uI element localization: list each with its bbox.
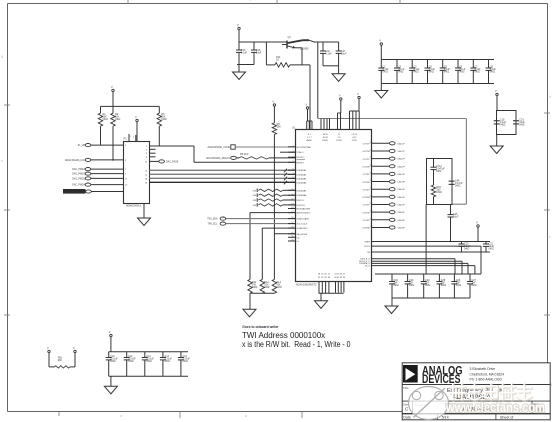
svg-text:0402: 0402 (165, 360, 171, 363)
svg-text:0402: 0402 (146, 360, 152, 363)
junction R2 on CLK row (112, 159, 114, 161)
svg-text:ADAU/SIGMA_MCLKO: ADAU/SIGMA_MCLKO (206, 157, 230, 160)
resistor R13 pulldown (272, 279, 282, 293)
svg-text:DAC6P: DAC6P (398, 226, 406, 229)
frame zone tick marks left border (1, 55, 10, 315)
svg-text:0402: 0402 (413, 70, 419, 73)
U2 left pin stubs and labels (288, 145, 312, 243)
svg-text:0402: 0402 (436, 170, 442, 173)
svg-text:0402: 0402 (429, 70, 435, 73)
power symbol connector VDD (135, 115, 138, 122)
watermark url text (445, 400, 545, 415)
svg-text:12: 12 (291, 199, 293, 201)
svg-text:2N3906: 2N3906 (300, 48, 309, 51)
wire bottom bank stem (110, 337, 112, 352)
svg-text:600: 600 (58, 359, 63, 362)
svg-text:OUT4M: OUT4M (362, 197, 370, 199)
resistor R15 filter (431, 185, 442, 204)
svg-text:0402: 0402 (455, 184, 461, 187)
wire U2 pin right corner down (372, 246, 482, 274)
svg-text:V: V (495, 89, 497, 93)
ground under P1 (138, 218, 151, 226)
svg-text:R5 49.9: R5 49.9 (240, 153, 249, 156)
ground under pulldown trio (243, 293, 256, 317)
svg-text:SDA/CDATA: SDA/CDATA (297, 218, 310, 221)
svg-text:VREF: VREF (364, 241, 370, 243)
capacitor C30 bulk (106, 352, 119, 377)
svg-text:10uF: 10uF (256, 51, 262, 54)
power symbol PLL supply (495, 89, 498, 96)
svg-text:ADAU/SIGMA_CLK: ADAU/SIGMA_CLK (65, 159, 86, 162)
resistor R11 pulldown (248, 279, 258, 293)
terminal DAC_PWD3 with wire to P1 (72, 177, 123, 181)
wire AVDD stem (238, 30, 240, 42)
resistor R7 series sdata dni stub (253, 189, 295, 193)
svg-text:V: V (357, 92, 359, 96)
svg-text:DNI: DNI (253, 205, 257, 207)
terminal DAC_PWD4 with wire to P1 (72, 183, 123, 187)
wire P1 SDATA4 black (150, 181, 296, 183)
svg-text:DAC_PWD4: DAC_PWD4 (72, 184, 85, 187)
svg-text:0402: 0402 (383, 70, 389, 73)
wire ADDR pullup bus down (273, 135, 275, 280)
power symbol FB1 left (47, 346, 50, 353)
svg-text:ADAU1962ABSTZ: ADAU1962ABSTZ (296, 284, 317, 287)
wire top rail node A (239, 42, 287, 45)
power symbol IOVDD pullups (111, 85, 114, 92)
capacitor C32 bulk (142, 352, 155, 377)
svg-text:1K: 1K (276, 58, 279, 61)
capacitor C13 (236, 42, 248, 65)
connector P1 bottom pin stub (143, 203, 145, 218)
wire PLL stem (496, 96, 498, 111)
capacitor C1 bypass (378, 60, 389, 84)
resistor R1 pullup (98, 106, 108, 145)
svg-text:0402: 0402 (519, 123, 525, 126)
svg-text:XTALO: XTALO (297, 151, 304, 154)
svg-text:MCLKO: MCLKO (297, 157, 305, 159)
wire top rail to C16 loop (314, 41, 339, 43)
svg-text:0402: 0402 (276, 286, 282, 289)
wire PVDD run to filter loop (318, 119, 467, 205)
svg-text:DAC5P: DAC5P (398, 211, 406, 214)
wire bottom bank bottom rail (109, 375, 188, 377)
wire U2 ground rail (319, 292, 344, 294)
transistor Q1 (282, 36, 309, 51)
svg-text:PL_UP: PL_UP (78, 145, 86, 147)
wire CLKIN to U2 (235, 146, 295, 148)
svg-text:0402: 0402 (398, 70, 404, 73)
svg-text:IOVD: IOVD (352, 140, 358, 142)
svg-text:MCLKIN/XTALI: MCLKIN/XTALI (297, 146, 312, 149)
svg-text:V: V (135, 115, 137, 119)
frame zone tick marks top border (128, 0, 400, 4)
pin labels P1 left column (125, 145, 128, 187)
power symbol U2 PVDD pin (339, 94, 342, 101)
resistor R6 pullup (272, 107, 281, 135)
wire C16 C17 loop (323, 42, 339, 66)
capacitor C18 (494, 119, 507, 127)
svg-text:5: 5 (292, 161, 293, 163)
frame zone tick marks bottom border (59, 411, 302, 418)
Analog Devices logo mark (403, 365, 418, 383)
wire U2 top pin group AVDD (307, 110, 312, 130)
power symbol U2 IOVDD pins (357, 92, 360, 99)
svg-text:0402: 0402 (471, 284, 477, 287)
svg-text:PVDD: PVDD (336, 140, 342, 142)
resistor R8 series sdata dni stub (253, 193, 295, 197)
wire pullup stem and rail (101, 92, 160, 106)
ground under bottom bank (104, 376, 117, 394)
svg-text:DAC2P: DAC2P (398, 165, 406, 168)
power symbol U2 AVDD pins (306, 103, 309, 110)
svg-text:DAC5P: DAC5P (398, 204, 406, 207)
svg-text:16: 16 (291, 217, 293, 219)
capacitor C4 bypass (425, 60, 436, 84)
svg-text:6: 6 (292, 169, 293, 171)
svg-text:ADAU/SIGMA_CLKIN: ADAU/SIGMA_CLKIN (208, 146, 231, 149)
svg-text:P1: P1 (124, 137, 128, 141)
capacitor C5 bypass (440, 60, 451, 84)
svg-text:30: 30 (370, 142, 372, 144)
title block date row (403, 415, 513, 419)
svg-text:0402: 0402 (437, 191, 443, 194)
svg-text:0402: 0402 (459, 70, 465, 73)
svg-text:DSDATA2: DSDATA2 (297, 173, 308, 176)
svg-text:29: 29 (370, 149, 372, 151)
wire U2 top pin group IOVDD (350, 99, 360, 130)
svg-text:0402: 0402 (183, 360, 189, 363)
svg-text:Goes to onboard writer: Goes to onboard writer (242, 325, 279, 329)
wire U2 bottom pin cluster DGND (318, 274, 331, 294)
svg-text:26: 26 (370, 172, 372, 174)
svg-text:DAC4P: DAC4P (398, 196, 406, 199)
svg-text:18: 18 (291, 227, 293, 229)
svg-text:OUT2M: OUT2M (362, 166, 370, 168)
connector P1 top pin stub 2 (133, 135, 136, 141)
svg-text:V: V (379, 39, 381, 43)
svg-text:DAC6P: DAC6P (398, 219, 406, 222)
ground under U2 (315, 293, 328, 308)
svg-text:V: V (109, 330, 111, 334)
wire U2 pin to C20 pair rail (372, 241, 458, 243)
terminal DAC_PWD2 with wire to P1 (72, 172, 123, 176)
svg-text:DAC_PWD2: DAC_PWD2 (72, 173, 85, 176)
svg-text:Title: Title (403, 386, 409, 390)
connector P1 body (124, 137, 150, 208)
svg-text:FILTR: FILTR (364, 246, 370, 248)
wire U2 TWI out bus 1 (372, 259, 456, 274)
capacitor C8 bypass (486, 60, 497, 84)
svg-text:15: 15 (291, 211, 293, 213)
svg-text:0402: 0402 (103, 118, 109, 121)
svg-text:AVDD: AVDD (307, 139, 313, 142)
terminal ADAU/SIGMA_CLK with wire to P1 (65, 158, 123, 162)
capacitor C25 bypass (436, 274, 446, 298)
svg-text:5/14: 5/14 (442, 415, 449, 419)
svg-text:Chelmsford, MA 01824: Chelmsford, MA 01824 (470, 372, 505, 376)
wire cap bank bottom rail (381, 83, 494, 85)
terminal TWI_SDA (207, 217, 225, 221)
svg-text:OUT3P: OUT3P (363, 174, 371, 176)
svg-text:Ph: 1-800-ANALOGD: Ph: 1-800-ANALOGD (470, 378, 503, 382)
wire U2 TWI out bus 2 (372, 261, 463, 274)
wire Q1 emitter to R14 node (290, 48, 310, 65)
svg-text:9 12 4: 9 12 4 (351, 134, 358, 136)
svg-text:www.elecfans.com: www.elecfans.com (445, 400, 545, 415)
title block outline and dividers (402, 363, 550, 420)
wire bottom bank top rail (109, 351, 188, 353)
svg-text:V: V (272, 100, 274, 104)
wire pulldown bottom rail (250, 293, 274, 301)
power symbol bottom cap bank (109, 330, 112, 337)
svg-text:TS_O: TS_O (365, 265, 371, 267)
svg-text:21: 21 (291, 240, 293, 242)
title block address text (470, 367, 505, 381)
ground under C18 C19 (490, 135, 503, 154)
svg-text:0402: 0402 (264, 286, 270, 289)
svg-text:DSDATA1: DSDATA1 (297, 169, 308, 172)
power symbol ADDR pullup (272, 100, 275, 107)
svg-text:0402: 0402 (115, 118, 121, 121)
svg-text:MOSI/ADDR0: MOSI/ADDR0 (297, 208, 311, 211)
svg-text:24: 24 (370, 188, 372, 190)
svg-text:3: 3 (292, 151, 293, 153)
svg-text:ADM3J/XDA 1: ADM3J/XDA 1 (126, 204, 142, 207)
svg-text:0402: 0402 (489, 247, 495, 250)
terminal RESET_MLRST inverted label (63, 189, 123, 194)
terminal PL_UP with wire to P1 (78, 144, 123, 148)
capacitor C26 bypass (451, 274, 461, 298)
svg-text:0402: 0402 (475, 70, 481, 73)
svg-text:13: 13 (291, 204, 293, 206)
wire emitter node down to U2 pin (309, 65, 311, 130)
pin labels U2 right lower (359, 241, 371, 267)
svg-text:": " (250, 0, 251, 4)
capacitor C7 bypass (470, 60, 481, 84)
svg-text:0402: 0402 (110, 360, 116, 363)
op-amp U2 ADAU1962A body (292, 125, 372, 286)
svg-text:14: 14 (291, 207, 293, 209)
svg-text:OUT5M: OUT5M (362, 212, 370, 214)
svg-text:OUT2P: OUT2P (363, 159, 371, 161)
capacitor C20 (459, 242, 471, 253)
wire U2 top pin group PVDD (338, 101, 341, 130)
svg-text:8: 8 (292, 177, 293, 179)
svg-text:0402: 0402 (425, 284, 431, 287)
svg-text:4: 4 (549, 95, 551, 99)
svg-text:SA_MODE: SA_MODE (297, 233, 308, 236)
svg-text:TWI_SDA: TWI_SDA (207, 218, 218, 221)
watermark chinese characters (451, 384, 532, 401)
power symbol VREF supply (476, 221, 479, 228)
svg-text:DBCLK: DBCLK (297, 200, 305, 202)
svg-text:10K: 10K (277, 125, 282, 128)
ferrite bead FB1 (49, 353, 75, 368)
svg-text:V: V (237, 23, 239, 27)
svg-text:19: 19 (370, 226, 372, 228)
resistor R3 pullup (157, 106, 167, 146)
svg-text:4: 4 (292, 156, 293, 158)
ground under C13 C15 (233, 65, 246, 80)
wire DVDD stem (380, 46, 382, 60)
svg-text:20: 20 (291, 236, 293, 238)
capacitor C21 (483, 242, 494, 253)
svg-text:Date: Date (403, 415, 411, 419)
svg-text:19: 19 (291, 232, 293, 234)
wire U2 pin row3 right (372, 251, 458, 253)
svg-text:DSDATA4: DSDATA4 (297, 181, 308, 184)
svg-text:DAC1P: DAC1P (398, 142, 406, 145)
wire P1 pin2 jog to U2 MCLK (150, 146, 296, 162)
resistor R9 series sdata dni stub (253, 198, 295, 202)
wire filter loop (427, 159, 453, 205)
svg-text:OUT4P: OUT4P (363, 189, 371, 191)
connector P1 right stub rows (150, 149, 156, 157)
svg-text:DAC1P: DAC1P (398, 150, 406, 153)
pin number labels U2 top (307, 134, 359, 142)
wire P1 SDATA3 gray (150, 177, 296, 179)
svg-text:9: 9 (292, 181, 293, 183)
net slash marks on data wires (284, 169, 287, 185)
wire U2 top pin group DVDD (321, 119, 330, 130)
wire C18 C19 loop (497, 111, 517, 135)
svg-text:22: 22 (370, 203, 372, 205)
svg-text:DAC_PWD1: DAC_PWD1 (72, 168, 85, 171)
capacitor C31 bulk (124, 352, 137, 377)
svg-text:0402: 0402 (393, 284, 399, 287)
capacitor C27 bypass (467, 274, 477, 298)
power symbol FB1 right (73, 346, 76, 353)
svg-text:0402: 0402 (409, 284, 415, 287)
wire P1 SDATA1 gray (150, 169, 296, 171)
svg-text:11: 11 (292, 194, 294, 196)
wire U2 TWI out bus 3 (372, 263, 469, 274)
capacitor C24 bypass (421, 274, 431, 298)
pin labels P1 right column (145, 146, 148, 185)
svg-text:10: 10 (291, 189, 293, 191)
svg-text:30 28: 30 28 (323, 137, 329, 139)
wire cap bank top rail (381, 59, 494, 61)
svg-text:RESET: RESET (297, 162, 305, 164)
wire U2 XTALO stub (280, 151, 295, 153)
capacitor C15 (251, 42, 262, 65)
wire U2 TWI out bus 4 (372, 266, 475, 274)
svg-text:OUT5P: OUT5P (363, 205, 371, 207)
svg-text:x is the R/W bit. Read - 1, W: x is the R/W bit. Read - 1, Write - 0 (242, 340, 351, 349)
svg-text:ADDR1/SelDe: ADDR1/SelDe (297, 212, 312, 215)
svg-text:21: 21 (370, 211, 372, 213)
svg-text:7: 7 (292, 173, 293, 175)
svg-text:OUT6M: OUT6M (362, 228, 370, 230)
wire U2 row joins ADDR bus (274, 233, 295, 235)
resistor R12 pulldown (260, 279, 270, 293)
svg-text:0402: 0402 (161, 118, 167, 121)
wire PVDD branch vertical (317, 42, 319, 119)
wire TWI_SDA to U2 (226, 218, 295, 220)
svg-text:DAC_PWD3: DAC_PWD3 (72, 177, 85, 180)
svg-text:0402: 0402 (444, 70, 450, 73)
svg-text:23: 23 (370, 195, 372, 197)
svg-text:DAC3P: DAC3P (398, 181, 406, 184)
svg-text:0402: 0402 (490, 70, 496, 73)
svg-text:DLRCLK: DLRCLK (297, 205, 306, 207)
capacitor C22 bypass (389, 274, 399, 298)
terminal ADAU/SIGMA_MCLKO (206, 156, 236, 160)
svg-text:V: V (111, 85, 113, 89)
wire U2 row to bus x250 (250, 213, 295, 280)
svg-text:V: V (47, 346, 49, 350)
wire loop left leads down (426, 204, 433, 274)
svg-text:17: 17 (291, 222, 293, 224)
resistor R14 base bias (266, 42, 289, 67)
svg-text:DNI: DNI (253, 200, 257, 202)
svg-text:OUT6P: OUT6P (363, 220, 371, 222)
svg-text:DNI: DNI (253, 190, 257, 192)
wire VREF stem (477, 228, 479, 242)
svg-text:DAC3P: DAC3P (398, 173, 406, 176)
svg-text:0.1uF: 0.1uF (326, 52, 333, 55)
svg-text:27: 27 (370, 165, 372, 167)
frame zone tick marks right border (544, 95, 552, 387)
svg-text:SCL/CCLK: SCL/CCLK (297, 224, 308, 226)
svg-text:DVDD: DVDD (322, 140, 328, 142)
capacitor C19 (513, 119, 525, 127)
svg-text:CM: CM (367, 252, 371, 254)
capacitor C17 (336, 42, 347, 66)
wire capacitor bottom rail (237, 64, 254, 66)
wire connector VDD stem (136, 122, 138, 141)
svg-text:OUT1P: OUT1P (363, 144, 371, 146)
watermark elecfans circle logo (409, 387, 449, 420)
svg-text:V: V (339, 94, 341, 98)
svg-text:V: V (73, 346, 75, 350)
svg-text:U1: U1 (292, 125, 296, 129)
terminal DAC_PAGE (150, 160, 179, 164)
capacitor C34 bulk (178, 352, 191, 377)
svg-text:DAC_PAGE: DAC_PAGE (166, 160, 179, 163)
svg-text:DAC2P: DAC2P (398, 158, 406, 161)
capacitor C6 bypass (455, 60, 466, 84)
svg-text:10uF: 10uF (341, 52, 347, 55)
svg-text:V: V (306, 103, 308, 107)
terminal ADAU/SIGMA_CLKIN (208, 145, 236, 149)
svg-text:0402: 0402 (500, 123, 506, 126)
wire U2 row to bus x262 (262, 228, 295, 279)
capacitor C2 bypass (394, 60, 405, 84)
wire Q1 collector to rail (303, 40, 314, 42)
ground under C16 C17 (332, 66, 345, 82)
svg-text:DSDATA3: DSDATA3 (297, 178, 308, 181)
svg-text:0402: 0402 (464, 247, 470, 250)
power symbol DVDD cap bank (379, 39, 382, 46)
capacitor C16 (320, 42, 332, 66)
wire R1 joins PL_UP row (100, 144, 102, 146)
wire TWI_SCL to U2 (226, 223, 295, 225)
capacitor C712 filter (431, 158, 446, 185)
svg-text:DAC4P: DAC4P (398, 188, 406, 191)
terminal TWI_SCL (208, 222, 226, 226)
svg-text:3 Elizabeth Drive: 3 Elizabeth Drive (470, 367, 496, 371)
wire right cap bank bottom rail (392, 297, 470, 299)
svg-text:DSDATA6: DSDATA6 (297, 194, 308, 197)
capacitor C44 filter (449, 180, 463, 188)
svg-text:OUT3M: OUT3M (362, 182, 370, 184)
capacitor C23 bypass (405, 274, 415, 298)
svg-text:4: 4 (1, 55, 3, 59)
ground under right cap bank (385, 298, 398, 314)
svg-text:0402: 0402 (252, 286, 258, 289)
